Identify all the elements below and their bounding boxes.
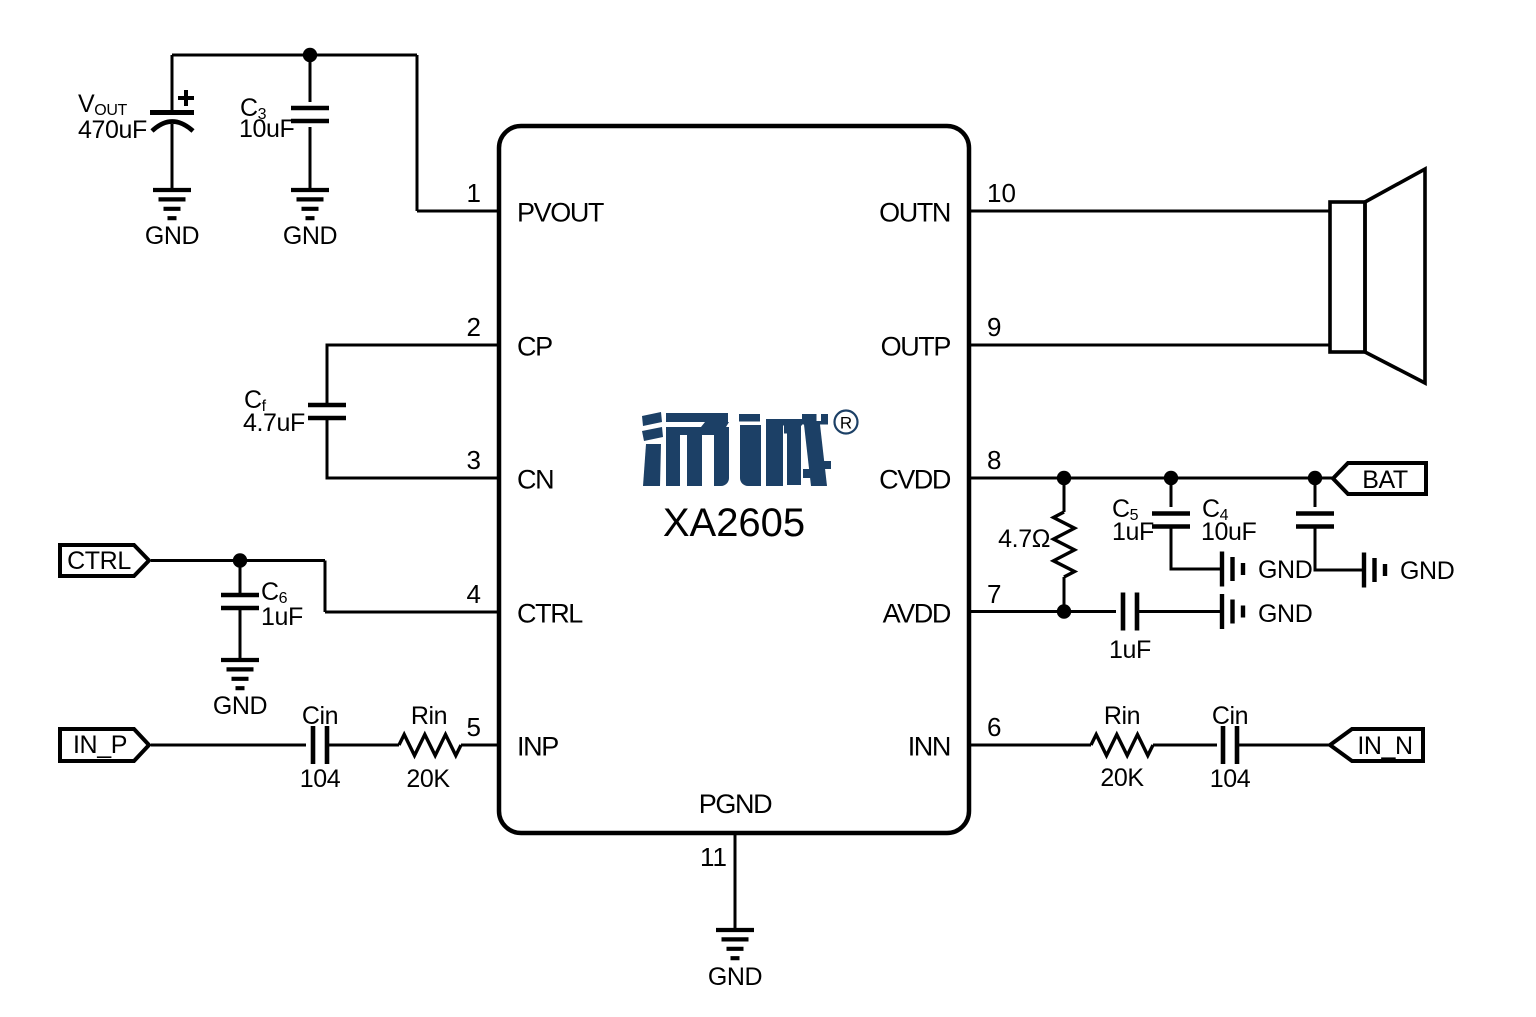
capacitor C3 10uF bbox=[291, 55, 329, 190]
svg-text:PVOUT: PVOUT bbox=[517, 198, 604, 228]
svg-text:4: 4 bbox=[467, 579, 481, 609]
wire Cin to Rin bbox=[327, 744, 399, 747]
port tag IN_P bbox=[60, 729, 149, 761]
svg-text:1uF: 1uF bbox=[1109, 636, 1151, 664]
capacitor C6 1uF bbox=[221, 561, 259, 661]
wire INN to Rin bbox=[969, 744, 1091, 747]
svg-text:4.7Ω: 4.7Ω bbox=[998, 525, 1050, 553]
svg-text:IN_P: IN_P bbox=[73, 731, 127, 759]
svg-text:GND: GND bbox=[145, 222, 199, 250]
svg-text:7: 7 bbox=[987, 579, 1001, 609]
IC logo (stylized brand mark) bbox=[642, 412, 831, 486]
node junction at C3 top bbox=[303, 48, 317, 62]
svg-text:5: 5 bbox=[467, 712, 481, 742]
wire PVOUT net top rail bbox=[172, 55, 499, 211]
svg-text:XA2605: XA2605 bbox=[663, 501, 805, 545]
wire PGND pin 11 bbox=[734, 833, 737, 930]
capacitor Cf 4.7uF bbox=[308, 405, 346, 418]
svg-text:11: 11 bbox=[700, 842, 727, 872]
capacitor 1uF (AVDD decoupling) bbox=[1123, 593, 1137, 631]
IC U1 XA2605 body bbox=[499, 126, 969, 833]
svg-text:GND: GND bbox=[1258, 600, 1312, 628]
node junction at 4.7ohm bottom / AVDD bbox=[1057, 604, 1071, 618]
svg-text:OUTP: OUTP bbox=[881, 332, 951, 362]
resistor 4.7 ohm bbox=[1054, 478, 1075, 611]
ground GND (VOUT) bbox=[153, 190, 191, 218]
wire CP to Cf loop bbox=[327, 345, 499, 405]
svg-text:470uF: 470uF bbox=[78, 116, 147, 144]
logo registered trademark bbox=[835, 411, 858, 434]
port tag CTRL bbox=[60, 545, 149, 576]
svg-text:CVDD: CVDD bbox=[879, 465, 951, 495]
wire Cin to IN_N tag bbox=[1237, 744, 1330, 747]
wire CVDD net to BAT bbox=[969, 477, 1333, 480]
capacitor C4 10uF (at BAT) bbox=[1296, 478, 1362, 570]
svg-text:4.7uF: 4.7uF bbox=[243, 409, 305, 437]
svg-text:Cin: Cin bbox=[302, 702, 338, 730]
svg-text:GND: GND bbox=[283, 222, 337, 250]
svg-text:6: 6 bbox=[987, 712, 1001, 742]
svg-text:CP: CP bbox=[517, 332, 552, 362]
node junction at BAT cap top bbox=[1308, 471, 1322, 485]
port tag IN_N bbox=[1330, 729, 1423, 761]
svg-text:104: 104 bbox=[300, 765, 341, 793]
wire AVDD net bbox=[969, 610, 1116, 613]
svg-text:GND: GND bbox=[1258, 556, 1312, 584]
wire IN_P to Cin bbox=[151, 744, 306, 747]
ground GND (AVDD, sideways) bbox=[1222, 594, 1243, 629]
svg-text:1: 1 bbox=[467, 178, 481, 208]
svg-text:CTRL: CTRL bbox=[517, 599, 583, 629]
wire OUTP to speaker bbox=[969, 344, 1330, 347]
ground GND (C5, sideways) bbox=[1222, 552, 1243, 587]
wire AVDD cap to ground bbox=[1137, 610, 1220, 613]
svg-text:1uF: 1uF bbox=[261, 603, 303, 631]
wire Rin to INP pin 5 bbox=[461, 744, 499, 747]
svg-text:IN_N: IN_N bbox=[1357, 732, 1412, 760]
svg-text:10: 10 bbox=[987, 178, 1016, 208]
capacitor Cin 104 (left) bbox=[313, 726, 327, 764]
wire Cf to CN bbox=[327, 418, 499, 478]
svg-text:CTRL: CTRL bbox=[67, 547, 131, 575]
svg-text:10uF: 10uF bbox=[1201, 518, 1257, 546]
speaker LS1 bbox=[1330, 169, 1425, 383]
svg-text:INN: INN bbox=[908, 732, 950, 762]
svg-text:CN: CN bbox=[517, 465, 553, 495]
port tag BAT bbox=[1333, 463, 1426, 494]
capacitor C5 1uF bbox=[1152, 478, 1220, 569]
svg-text:GND: GND bbox=[1400, 557, 1454, 585]
svg-text:9: 9 bbox=[987, 312, 1001, 342]
svg-text:INP: INP bbox=[517, 732, 558, 762]
svg-text:1uF: 1uF bbox=[1112, 518, 1154, 546]
svg-text:Rin: Rin bbox=[411, 702, 447, 730]
svg-text:104: 104 bbox=[1210, 765, 1251, 793]
svg-text:Rin: Rin bbox=[1104, 702, 1140, 730]
svg-text:8: 8 bbox=[987, 445, 1001, 475]
svg-text:2: 2 bbox=[467, 312, 481, 342]
svg-text:10uF: 10uF bbox=[239, 115, 295, 143]
svg-text:R: R bbox=[840, 414, 852, 433]
capacitor VOUT 470uF (polarized) bbox=[150, 55, 194, 190]
svg-text:GND: GND bbox=[213, 692, 267, 720]
svg-text:GND: GND bbox=[708, 963, 762, 991]
svg-text:AVDD: AVDD bbox=[883, 599, 951, 629]
svg-text:3: 3 bbox=[467, 445, 481, 475]
ground GND (C6) bbox=[221, 660, 259, 688]
wire Rin to Cin (right) bbox=[1153, 744, 1217, 747]
ground GND (C3) bbox=[291, 190, 329, 218]
svg-text:20K: 20K bbox=[406, 765, 450, 793]
resistor Rin 20K (left) bbox=[399, 735, 461, 756]
resistor Rin 20K (right) bbox=[1091, 735, 1153, 756]
wire OUTN to speaker bbox=[969, 210, 1330, 213]
svg-text:BAT: BAT bbox=[1362, 466, 1408, 494]
wire CTRL net bbox=[151, 561, 499, 613]
ground GND (C4, sideways) bbox=[1364, 553, 1385, 588]
node junction at 4.7ohm top bbox=[1057, 471, 1071, 485]
node junction at C5 top bbox=[1164, 471, 1178, 485]
ground GND (PGND) bbox=[716, 930, 754, 958]
node junction at C6 top bbox=[233, 553, 247, 567]
svg-text:Cin: Cin bbox=[1212, 702, 1248, 730]
capacitor Cin 104 (right) bbox=[1223, 726, 1237, 764]
svg-text:PGND: PGND bbox=[699, 789, 772, 819]
svg-text:OUTN: OUTN bbox=[879, 198, 950, 228]
svg-text:20K: 20K bbox=[1100, 764, 1144, 792]
